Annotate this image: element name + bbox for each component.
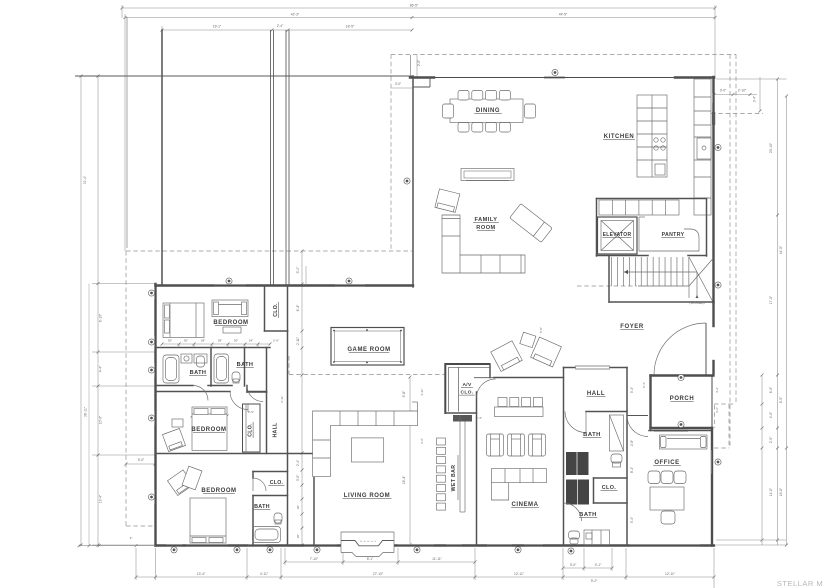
svg-text:5′-8″: 5′-8″	[539, 327, 543, 333]
svg-text:ELEVATOR: ELEVATOR	[603, 232, 632, 238]
svg-text:2′-0″: 2′-0″	[417, 59, 421, 66]
svg-text:12′-11″: 12′-11″	[514, 572, 525, 576]
svg-text:28″: 28″	[218, 339, 222, 343]
svg-text:CLO.: CLO.	[270, 480, 284, 486]
svg-text:14′-8″: 14′-8″	[769, 487, 773, 496]
svg-text:7′-10″: 7′-10″	[310, 557, 319, 561]
svg-text:DINING: DINING	[476, 108, 500, 114]
svg-text:2′-9″: 2′-9″	[273, 339, 279, 343]
svg-text:BATH: BATH	[254, 504, 270, 510]
svg-text:4′-4″: 4′-4″	[99, 365, 103, 372]
svg-text:3′-6″: 3′-6″	[420, 438, 424, 444]
svg-text:KITCHEN: KITCHEN	[604, 134, 635, 140]
svg-text:44′-5″: 44′-5″	[779, 245, 783, 254]
svg-text:27′-10″: 27′-10″	[373, 572, 384, 576]
svg-text:30″: 30″	[296, 505, 300, 509]
svg-text:HALL: HALL	[587, 391, 605, 397]
svg-text:ROOM: ROOM	[476, 225, 495, 231]
svg-text:6′-4″: 6′-4″	[296, 304, 300, 312]
svg-text:30″: 30″	[296, 534, 300, 538]
svg-text:5′-0″: 5′-0″	[296, 266, 300, 274]
svg-text:CINEMA: CINEMA	[512, 502, 539, 508]
svg-text:2′-4″: 2′-4″	[277, 24, 284, 28]
svg-text:4′-11″: 4′-11″	[260, 572, 269, 576]
svg-text:2′-11″: 2′-11″	[280, 395, 284, 402]
svg-text:16′-8″: 16′-8″	[779, 487, 783, 496]
svg-text:BATH: BATH	[237, 362, 254, 368]
svg-text:CLO.: CLO.	[461, 390, 474, 396]
svg-text:2′-10″: 2′-10″	[738, 89, 747, 93]
svg-text:8′-10″: 8′-10″	[99, 313, 103, 322]
svg-text:17′-5″: 17′-5″	[769, 295, 773, 304]
svg-text:3′-0″: 3′-0″	[720, 89, 727, 93]
svg-text:30″: 30″	[234, 339, 238, 343]
svg-text:11′-11″: 11′-11″	[432, 557, 443, 561]
svg-text:6′-4″: 6′-4″	[642, 382, 646, 388]
svg-text:8′-1″: 8′-1″	[630, 466, 634, 473]
svg-text:6′-0″: 6′-0″	[769, 386, 773, 393]
svg-text:3′-0″: 3′-0″	[570, 563, 577, 567]
svg-text:8′-1″: 8′-1″	[367, 557, 374, 561]
svg-text:LIVING ROOM: LIVING ROOM	[344, 493, 390, 499]
svg-text:BATH: BATH	[190, 370, 207, 376]
svg-text:16′-1″: 16′-1″	[213, 25, 222, 29]
svg-text:10′-0″: 10′-0″	[99, 415, 103, 424]
svg-text:BEDROOM: BEDROOM	[213, 320, 248, 326]
svg-text:(18 RISER): (18 RISER)	[689, 301, 704, 305]
svg-text:86′-5″: 86′-5″	[410, 4, 419, 8]
svg-text:36′-11″: 36′-11″	[84, 406, 88, 417]
svg-text:5′-8″: 5′-8″	[402, 390, 406, 398]
svg-text:13′-4″: 13′-4″	[197, 572, 206, 576]
svg-text:2′-4″: 2′-4″	[296, 459, 300, 466]
svg-text:FAMILY: FAMILY	[475, 217, 498, 223]
svg-text:44′-5″: 44′-5″	[559, 13, 568, 17]
svg-text:42′-3″: 42′-3″	[291, 13, 300, 17]
svg-text:OFFICE: OFFICE	[654, 460, 679, 466]
svg-text:WET BAR: WET BAR	[451, 465, 457, 492]
svg-text:CLO.: CLO.	[248, 423, 254, 437]
svg-text:FOYER: FOYER	[620, 324, 644, 330]
svg-text:BATH: BATH	[583, 432, 601, 438]
svg-text:4′-1″: 4′-1″	[595, 563, 602, 567]
svg-text:2′-11″: 2′-11″	[296, 336, 300, 345]
svg-text:A/V: A/V	[462, 382, 471, 388]
svg-text:24″: 24″	[249, 339, 253, 343]
svg-text:CLO.: CLO.	[273, 303, 279, 317]
svg-text:3′-0″: 3′-0″	[395, 82, 402, 86]
svg-text:4′-2″: 4′-2″	[715, 387, 719, 393]
svg-text:28″: 28″	[201, 339, 205, 343]
svg-text:PANTRY: PANTRY	[662, 232, 685, 238]
svg-text:PORCH: PORCH	[670, 396, 694, 402]
svg-text:BATH: BATH	[579, 512, 597, 518]
svg-text:2′-0″: 2′-0″	[769, 436, 773, 443]
svg-text:18′-5″: 18′-5″	[346, 25, 355, 29]
svg-text:5′-0″: 5′-0″	[138, 458, 145, 462]
svg-text:4′-2″: 4′-2″	[715, 407, 719, 413]
svg-text:13′-4″: 13′-4″	[99, 494, 103, 503]
svg-text:3′-4″: 3′-4″	[753, 95, 757, 102]
svg-text:31′-4″: 31′-4″	[83, 175, 87, 184]
svg-text:8′-0″: 8′-0″	[779, 396, 783, 403]
svg-text:4′-11″: 4′-11″	[420, 388, 424, 395]
svg-text:9′-2″: 9′-2″	[591, 579, 598, 583]
svg-text:4′-0″: 4′-0″	[769, 411, 773, 418]
svg-text:3″: 3″	[130, 536, 133, 540]
svg-text:5′-4″: 5′-4″	[630, 516, 634, 523]
svg-text:30″: 30″	[184, 339, 188, 343]
svg-text:BEDROOM: BEDROOM	[191, 427, 226, 433]
svg-text:BEDROOM: BEDROOM	[201, 488, 236, 494]
svg-text:18′-4″: 18′-4″	[402, 475, 406, 484]
svg-text:2′-8″: 2′-8″	[630, 439, 634, 446]
svg-text:STELLAR M: STELLAR M	[777, 579, 823, 588]
svg-text:30″: 30″	[168, 339, 172, 343]
svg-text:12′-11″: 12′-11″	[665, 572, 676, 576]
svg-text:HALL: HALL	[273, 422, 279, 438]
svg-text:GAME ROOM: GAME ROOM	[347, 347, 390, 353]
svg-text:3′-0″: 3′-0″	[296, 474, 300, 481]
svg-text:20′-10″: 20′-10″	[769, 142, 773, 153]
svg-text:CLO.: CLO.	[602, 485, 617, 491]
svg-text:5′-4″: 5′-4″	[630, 386, 634, 393]
svg-text:2′-6″: 2′-6″	[248, 410, 254, 414]
